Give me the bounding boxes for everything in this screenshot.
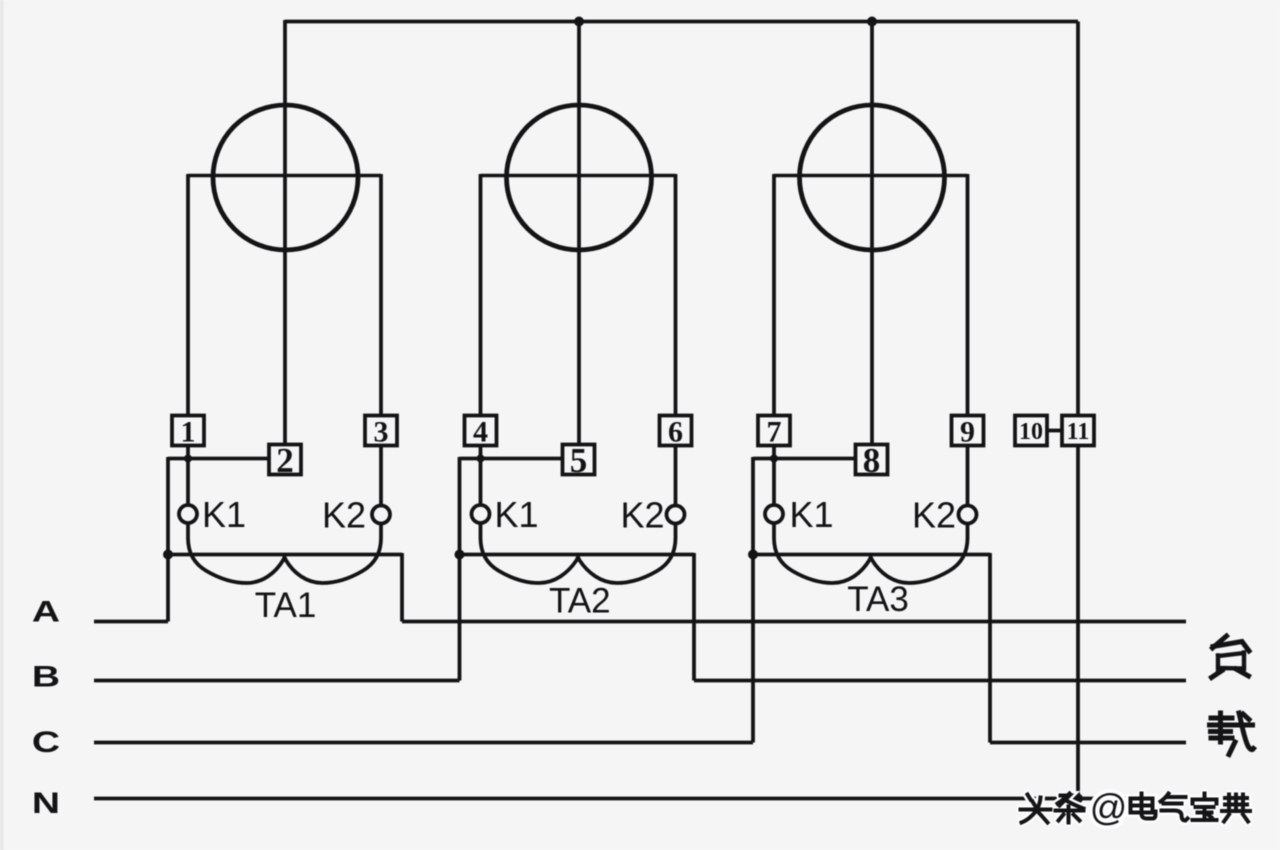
svg-text:K1: K1 bbox=[495, 494, 539, 535]
svg-text:K2: K2 bbox=[621, 495, 665, 536]
svg-text:5: 5 bbox=[570, 441, 588, 480]
svg-text:K2: K2 bbox=[912, 495, 956, 536]
svg-text:6: 6 bbox=[668, 415, 683, 448]
svg-text:11: 11 bbox=[1067, 419, 1090, 445]
svg-text:7: 7 bbox=[767, 415, 782, 448]
svg-text:K2: K2 bbox=[322, 495, 366, 536]
svg-text:4: 4 bbox=[473, 415, 488, 448]
svg-text:10: 10 bbox=[1019, 419, 1043, 445]
svg-text:9: 9 bbox=[960, 415, 975, 448]
svg-text:TA3: TA3 bbox=[847, 580, 909, 619]
svg-text:K1: K1 bbox=[790, 494, 834, 535]
svg-text:B: B bbox=[32, 661, 60, 694]
svg-text:2: 2 bbox=[276, 441, 294, 480]
svg-text:A: A bbox=[32, 596, 60, 629]
svg-text:1: 1 bbox=[181, 415, 196, 448]
svg-text:@: @ bbox=[1090, 787, 1128, 828]
svg-text:N: N bbox=[32, 787, 60, 820]
svg-text:3: 3 bbox=[374, 415, 389, 448]
svg-text:C: C bbox=[32, 726, 60, 759]
svg-text:TA2: TA2 bbox=[549, 582, 611, 621]
svg-text:8: 8 bbox=[863, 441, 881, 480]
svg-text:K1: K1 bbox=[202, 494, 246, 535]
svg-text:TA1: TA1 bbox=[255, 586, 317, 625]
